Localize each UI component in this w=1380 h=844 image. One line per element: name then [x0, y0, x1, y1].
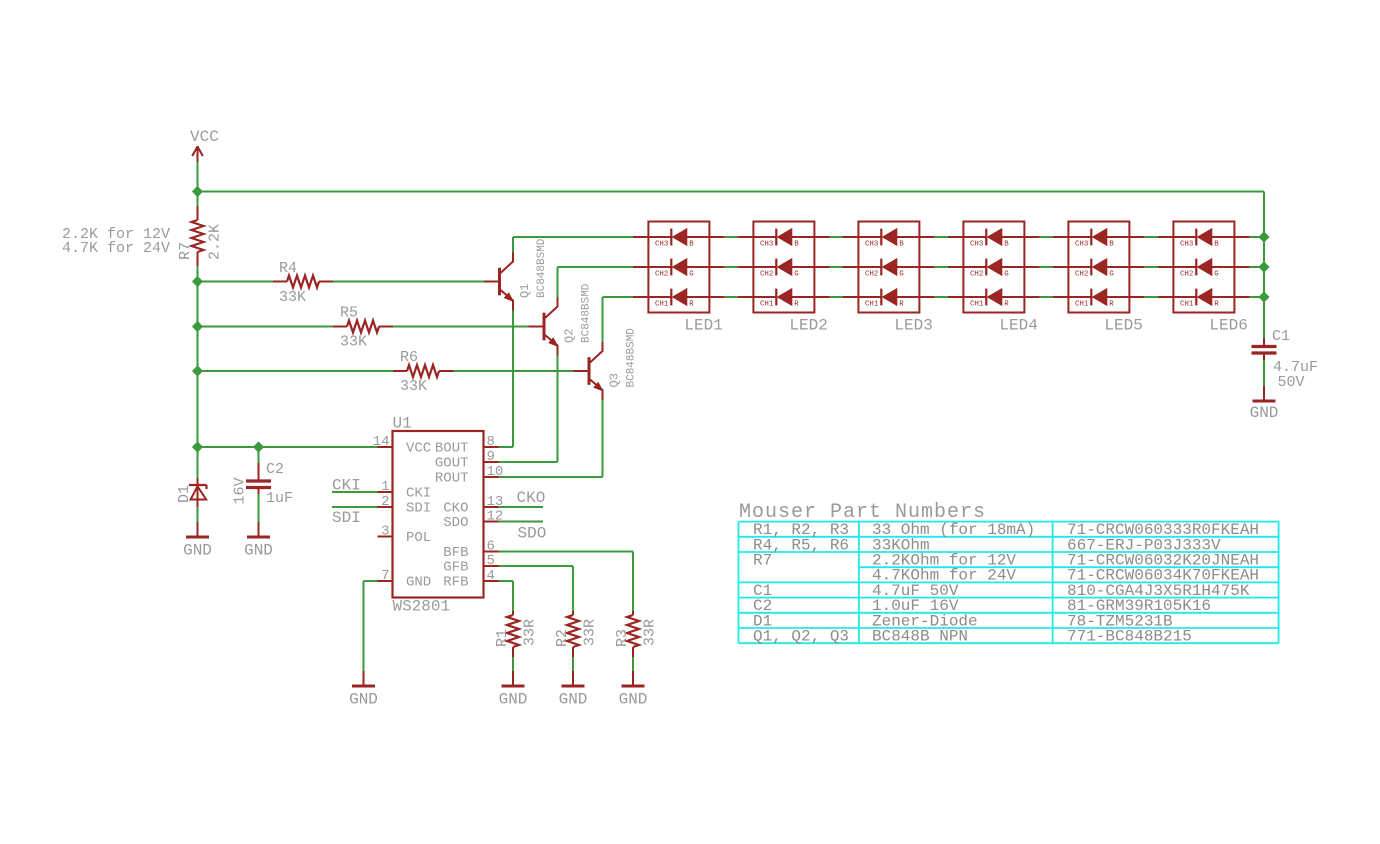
- svg-text:771-BC848B215: 771-BC848B215: [1067, 628, 1192, 646]
- svg-text:BOUT: BOUT: [435, 441, 469, 457]
- svg-text:LED1: LED1: [684, 317, 722, 335]
- svg-text:CH1: CH1: [865, 301, 879, 309]
- svg-text:R7: R7: [177, 242, 194, 260]
- svg-text:BC848BSMD: BC848BSMD: [536, 238, 548, 298]
- svg-text:R2: R2: [554, 629, 571, 647]
- svg-text:GND: GND: [1250, 404, 1279, 422]
- svg-text:CKI: CKI: [406, 486, 431, 502]
- svg-text:B: B: [794, 241, 799, 249]
- svg-text:VCC: VCC: [406, 441, 431, 457]
- svg-text:BC848BSMD: BC848BSMD: [626, 328, 638, 388]
- svg-text:16V: 16V: [232, 477, 249, 504]
- svg-text:R: R: [689, 301, 694, 309]
- svg-text:G: G: [899, 271, 903, 279]
- svg-text:33K: 33K: [279, 289, 306, 306]
- svg-text:R: R: [899, 301, 904, 309]
- svg-text:CH2: CH2: [655, 271, 668, 279]
- svg-text:1uF: 1uF: [266, 490, 293, 507]
- svg-text:Q3: Q3: [608, 373, 622, 387]
- svg-text:R: R: [1004, 301, 1009, 309]
- svg-text:GND: GND: [349, 691, 378, 709]
- svg-text:GND: GND: [183, 542, 212, 560]
- svg-text:SDI: SDI: [406, 501, 431, 517]
- svg-text:R1: R1: [494, 629, 511, 647]
- svg-text:CH3: CH3: [1075, 241, 1088, 249]
- svg-text:GND: GND: [244, 542, 273, 560]
- svg-text:CH2: CH2: [1075, 271, 1088, 279]
- svg-text:G: G: [794, 271, 798, 279]
- svg-text:B: B: [1109, 241, 1114, 249]
- svg-text:33R: 33R: [642, 619, 659, 646]
- svg-text:8: 8: [487, 434, 495, 450]
- svg-text:5: 5: [487, 553, 495, 569]
- svg-text:SDO: SDO: [443, 515, 468, 531]
- svg-text:Q2: Q2: [563, 329, 577, 343]
- svg-text:B: B: [689, 241, 694, 249]
- svg-text:C2: C2: [266, 461, 284, 478]
- svg-text:BC848B NPN: BC848B NPN: [872, 628, 968, 646]
- svg-text:GND: GND: [619, 691, 648, 709]
- svg-text:LED3: LED3: [894, 317, 932, 335]
- svg-text:C1: C1: [1272, 328, 1290, 345]
- svg-text:G: G: [1109, 271, 1113, 279]
- svg-text:7: 7: [381, 568, 389, 584]
- svg-text:B: B: [1004, 241, 1009, 249]
- svg-text:33K: 33K: [340, 334, 367, 351]
- svg-text:CKO: CKO: [517, 489, 546, 507]
- svg-text:R: R: [794, 301, 799, 309]
- svg-text:1: 1: [381, 479, 389, 495]
- svg-text:R: R: [1109, 301, 1114, 309]
- svg-text:CH3: CH3: [655, 241, 668, 249]
- svg-text:WS2801: WS2801: [393, 598, 451, 616]
- svg-text:CH1: CH1: [1075, 301, 1089, 309]
- svg-text:GFB: GFB: [443, 560, 468, 576]
- svg-text:R6: R6: [400, 349, 418, 366]
- svg-text:CH1: CH1: [760, 301, 774, 309]
- svg-text:R4: R4: [279, 260, 297, 277]
- svg-text:Q1: Q1: [518, 284, 532, 298]
- svg-text:50V: 50V: [1278, 374, 1305, 391]
- svg-text:CH2: CH2: [865, 271, 878, 279]
- svg-text:CKI: CKI: [332, 477, 361, 495]
- svg-text:SDI: SDI: [332, 509, 361, 527]
- svg-text:CH1: CH1: [1180, 301, 1194, 309]
- svg-text:SDO: SDO: [518, 525, 547, 543]
- svg-text:CH1: CH1: [970, 301, 984, 309]
- svg-text:CH2: CH2: [760, 271, 773, 279]
- svg-text:GND: GND: [559, 691, 588, 709]
- svg-text:33R: 33R: [582, 619, 599, 646]
- svg-text:CH1: CH1: [655, 301, 669, 309]
- svg-text:33R: 33R: [522, 619, 539, 646]
- svg-text:R5: R5: [340, 305, 358, 322]
- svg-text:4: 4: [487, 568, 495, 584]
- svg-text:CH3: CH3: [970, 241, 983, 249]
- svg-text:U1: U1: [393, 415, 412, 433]
- svg-text:RFB: RFB: [443, 575, 468, 591]
- svg-text:CH2: CH2: [1180, 271, 1193, 279]
- svg-text:LED2: LED2: [789, 317, 827, 335]
- svg-text:Q1, Q2, Q3: Q1, Q2, Q3: [753, 628, 849, 646]
- svg-text:33K: 33K: [400, 378, 427, 395]
- svg-text:G: G: [689, 271, 693, 279]
- svg-text:LED4: LED4: [999, 317, 1037, 335]
- svg-text:GND: GND: [499, 691, 528, 709]
- svg-text:ROUT: ROUT: [435, 471, 469, 487]
- svg-text:VCC: VCC: [190, 128, 219, 146]
- svg-text:4.7K for 24V: 4.7K for 24V: [62, 240, 170, 257]
- svg-text:3: 3: [381, 524, 389, 540]
- svg-text:CH3: CH3: [1180, 241, 1193, 249]
- svg-text:R: R: [1214, 301, 1219, 309]
- svg-text:2: 2: [381, 494, 389, 510]
- svg-text:2.2K: 2.2K: [207, 224, 224, 260]
- svg-text:LED5: LED5: [1104, 317, 1142, 335]
- svg-text:GND: GND: [406, 575, 431, 591]
- svg-text:G: G: [1214, 271, 1218, 279]
- svg-text:CH3: CH3: [760, 241, 773, 249]
- svg-text:R3: R3: [614, 629, 631, 647]
- svg-text:B: B: [1214, 241, 1219, 249]
- svg-text:CH2: CH2: [970, 271, 983, 279]
- svg-text:POL: POL: [406, 530, 431, 546]
- svg-text:9: 9: [487, 449, 495, 465]
- svg-text:R7: R7: [753, 552, 772, 570]
- svg-text:CH3: CH3: [865, 241, 878, 249]
- svg-text:GOUT: GOUT: [435, 456, 469, 472]
- svg-text:D1: D1: [176, 485, 193, 503]
- svg-text:G: G: [1004, 271, 1008, 279]
- svg-text:LED6: LED6: [1209, 317, 1247, 335]
- svg-text:B: B: [899, 241, 904, 249]
- svg-text:BC848BSMD: BC848BSMD: [581, 283, 593, 343]
